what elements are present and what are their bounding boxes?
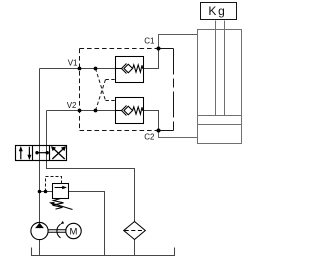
load box Kg: [201, 3, 237, 20]
pump: [31, 222, 48, 239]
valve centre position closed symbol: [35, 151, 49, 154]
wire relief valve outlet to tank: [69, 192, 105, 256]
cylinder body: [198, 30, 242, 144]
node pump line to relief dot: [38, 190, 42, 194]
node relief pilot branch dot: [44, 190, 48, 194]
wire V1 line from valve port A to check valve V1 inlet: [40, 68, 116, 70]
svg-text:Kg: Kg: [208, 4, 226, 18]
check valve V1 (pilot operated): [116, 57, 144, 83]
node C1 dot: [157, 47, 161, 51]
wire valve tank port T to filter: [47, 161, 135, 222]
dashed enclosure right edge bottom link to C2: [159, 130, 174, 132]
dashed enclosure top edge: [80, 48, 159, 50]
valve left position parallel arrows: [19, 146, 32, 160]
node V1 junction dot: [78, 67, 82, 71]
relief valve body: [53, 184, 69, 199]
node V2 pilot branch dot: [94, 109, 98, 113]
node V1 pilot branch dot: [94, 67, 98, 71]
wire pump suction to tank: [39, 240, 41, 256]
dashed enclosure right edge top link from C1: [159, 48, 174, 50]
pilot line stub into check valve V2: [106, 100, 116, 102]
dashed enclosure bottom edge: [80, 130, 159, 132]
svg-text:M: M: [70, 226, 78, 237]
relief valve pilot line: [46, 177, 62, 192]
pilot line diagonal from V1 node to check valve V2: [96, 69, 106, 101]
shaft rotation arrow: [57, 221, 64, 238]
svg-text:C1: C1: [144, 36, 155, 45]
filter: [124, 222, 146, 240]
node C2 dot: [157, 129, 161, 133]
pilot line stub into check valve V1: [106, 79, 116, 81]
dashed enclosure right edge: [173, 49, 175, 131]
cylinder piston rod: [216, 21, 225, 116]
wire pump pressure line P to valve: [39, 161, 41, 223]
wire V2 line from valve port B to check valve V2 inlet: [47, 110, 116, 112]
valve right position crossed arrows: [51, 146, 66, 159]
dashed enclosure left edge: [79, 49, 81, 131]
wire node C1 to cylinder rod-side port: [159, 35, 198, 49]
wire riser valve port B up to V2: [46, 111, 48, 161]
wire check valve V1 outlet to node C1: [144, 49, 159, 69]
relief valve adjustable spring: [49, 199, 73, 210]
check valve V2 (pilot operated): [116, 98, 144, 124]
pilot line diagonal from V2 node to check valve V1: [96, 80, 106, 111]
wire branch to relief valve inlet: [40, 191, 53, 193]
node V2 junction dot: [78, 109, 82, 113]
wire node C2 to cylinder cap-side port: [159, 131, 198, 138]
tank reservoir: [32, 248, 175, 256]
cylinder piston: [198, 116, 242, 125]
svg-text:V2: V2: [67, 101, 77, 110]
svg-text:V1: V1: [68, 58, 78, 67]
electric motor M: [66, 223, 81, 238]
drive shaft pump to motor: [48, 230, 66, 232]
wire riser valve port A up to V1: [39, 69, 41, 161]
svg-text:C2: C2: [144, 133, 155, 142]
directional control valve 4/3 body: [16, 146, 67, 161]
wire filter outlet to tank: [134, 240, 136, 256]
wire check valve V2 outlet to node C2: [144, 111, 159, 131]
